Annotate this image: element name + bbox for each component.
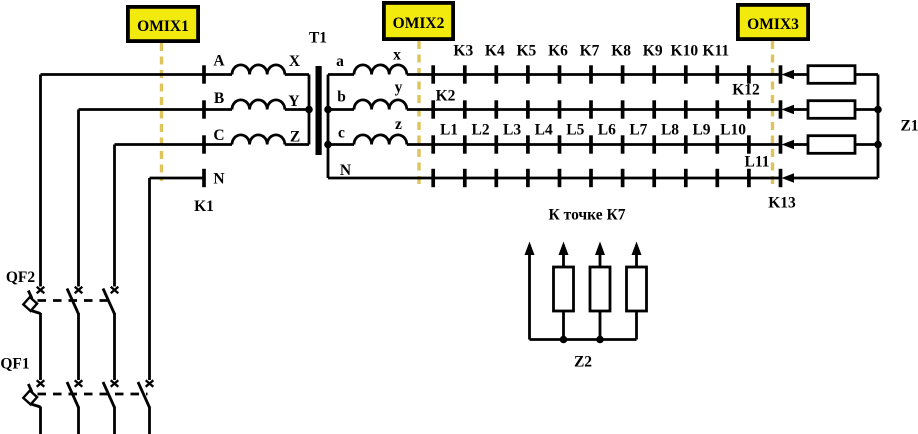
breaker QF1 pole 4 lower wire <box>148 407 151 434</box>
breaker QF2 pole 1 blade <box>28 291 32 299</box>
wire Z2 branch 2 lower <box>562 311 565 340</box>
svg-text:OMIX1: OMIX1 <box>137 18 189 35</box>
svg-text:N: N <box>213 171 224 188</box>
wire Z2 branch 3 upper <box>599 252 602 267</box>
breaker QF1 pole 3 blade <box>103 382 115 408</box>
wire phase C vertical drop <box>113 145 116 287</box>
junction node Z2 branch 3 <box>596 336 604 344</box>
arrow up, Z2 branch 3 <box>595 242 605 256</box>
labels X Y Z <box>288 53 301 146</box>
labels x y z <box>393 47 403 134</box>
dashed probe line of OMIX1 <box>160 43 163 181</box>
resistor of Z2, branch 3 <box>590 267 610 311</box>
svg-text:Z2: Z2 <box>574 354 592 371</box>
wire a stub <box>328 73 354 76</box>
breaker QF2 pole 1 blade to lower wire <box>31 311 41 314</box>
wire resistor row 2 to bus <box>855 108 878 111</box>
svg-text:b: b <box>337 89 346 106</box>
breaker QF2 mechanical linkage (dashed) <box>38 299 113 302</box>
wire b stub <box>328 108 354 111</box>
svg-text:L8: L8 <box>661 122 679 139</box>
junction node at Y <box>305 106 313 114</box>
junction node at b <box>324 106 332 114</box>
svg-text:L11: L11 <box>745 154 770 171</box>
arrow up, Z2 branch 1 <box>525 242 535 256</box>
measurement device box OMIX1 <box>128 7 198 41</box>
wire arrow to resistor row 1 <box>792 73 808 76</box>
wire arrow to resistor row 3 <box>792 143 808 146</box>
junction node bus row 3 <box>874 141 882 149</box>
breaker QF2 actuator square <box>23 297 37 311</box>
arrow into row N (K13 row) from Z1 side <box>782 173 795 183</box>
svg-text:Z1: Z1 <box>900 118 918 135</box>
dashed probe line of OMIX3 <box>771 41 774 188</box>
terminal tick on row C at K1 column <box>202 135 206 153</box>
svg-text:z: z <box>395 116 402 133</box>
junction node bus row 2 <box>874 106 882 114</box>
wire resistor row 1 to bus <box>855 73 878 76</box>
breaker QF2 pole 1 fixed contact x-mark <box>37 287 45 294</box>
svg-text:K9: K9 <box>643 43 663 60</box>
svg-text:K13: K13 <box>768 195 796 212</box>
wire phase B horizontal <box>79 108 233 111</box>
breaker QF2 pole 3 lower wire <box>113 313 116 380</box>
wire row a (K row) horizontal run <box>407 73 781 76</box>
wire Z2 branch 3 lower <box>599 311 602 340</box>
tap ticks on row a (K row) <box>433 65 780 83</box>
svg-text:L9: L9 <box>692 122 710 139</box>
svg-text:K5: K5 <box>516 43 536 60</box>
winding A-X (primary) <box>232 65 285 75</box>
wire Z2 branch 4 lower <box>635 311 638 340</box>
breaker QF1 pole 2 fixed contact x-mark <box>75 380 83 387</box>
winding C-Z (primary) <box>232 135 285 145</box>
arrow into row c (L row) from Z1 side <box>782 140 795 150</box>
svg-text:y: y <box>395 79 403 96</box>
svg-text:K3: K3 <box>453 43 473 60</box>
arrow into row a (K row) from Z1 side <box>782 70 795 80</box>
wire resistor row 3 to bus <box>855 143 878 146</box>
measurement device box OMIX3 <box>738 5 808 39</box>
junction node at c <box>324 141 332 149</box>
wire Z2 branch 2 upper <box>562 252 565 267</box>
tap ticks on row N (K13 row) <box>433 169 780 187</box>
wire phase C horizontal <box>115 143 233 146</box>
svg-text:Z: Z <box>290 129 300 146</box>
svg-text:L1: L1 <box>440 122 458 139</box>
breaker QF1 pole 1 fixed contact x-mark <box>37 380 45 387</box>
breaker QF1 pole 4 fixed contact x-mark <box>146 380 154 387</box>
svg-text:B: B <box>214 90 224 107</box>
wire neutral N horizontal <box>150 177 206 180</box>
breaker QF1 pole 2 blade <box>67 382 79 408</box>
svg-text:QF1: QF1 <box>0 356 29 373</box>
tap ticks on row c (L row) <box>433 135 780 153</box>
wire phase A vertical drop <box>39 75 42 287</box>
terminal tick on row N at K1 column <box>202 169 206 187</box>
breaker QF1 pole 2 lower wire <box>77 407 80 434</box>
breaker QF1 pole 3 lower wire <box>113 407 116 434</box>
svg-text:OMIX3: OMIX3 <box>747 16 799 33</box>
svg-text:Y: Y <box>288 93 299 110</box>
svg-text:K2: K2 <box>436 88 456 105</box>
breaker QF1 pole 1 lower wire <box>39 407 42 434</box>
svg-text:L3: L3 <box>503 122 521 139</box>
primary star-point vertical wire <box>308 75 311 145</box>
svg-text:L7: L7 <box>629 122 647 139</box>
svg-text:L4: L4 <box>535 122 553 139</box>
wire arrow to resistor row 2 <box>792 108 808 111</box>
wire winding Z to star point <box>285 143 309 146</box>
resistor of Z2, branch 4 <box>627 267 647 311</box>
svg-text:A: A <box>213 53 225 70</box>
svg-text:a: a <box>336 53 344 70</box>
breaker QF1 pole 1 blade to lower wire <box>31 404 41 407</box>
resistor of Z2, branch 2 <box>554 267 574 311</box>
svg-text:x: x <box>393 47 401 64</box>
svg-text:K7: K7 <box>580 43 600 60</box>
svg-text:T1: T1 <box>309 30 327 47</box>
secondary common vertical wire <box>327 75 330 179</box>
svg-text:К точке К7: К точке К7 <box>549 207 626 224</box>
Z1 bus vertical wire <box>877 75 880 179</box>
svg-text:L6: L6 <box>598 122 616 139</box>
breaker QF1 pole 1 blade <box>28 384 32 392</box>
svg-text:OMIX2: OMIX2 <box>393 15 445 32</box>
wire phase A horizontal <box>41 73 233 76</box>
breaker QF1 actuator square <box>23 391 37 405</box>
terminal tick on row B at K1 column <box>202 100 206 118</box>
svg-text:K6: K6 <box>548 43 568 60</box>
Z2 bottom common wire <box>530 338 637 341</box>
breaker QF2 pole 3 fixed contact x-mark <box>111 287 119 294</box>
tap ticks on row b (K2-K12 row) <box>433 100 780 118</box>
breaker QF2 pole 1 lower wire <box>39 313 42 380</box>
svg-text:K10: K10 <box>671 43 699 60</box>
labels a b c <box>336 53 346 142</box>
wire winding Y to star point <box>285 108 309 111</box>
wire Z2 branch 4 upper <box>635 252 638 267</box>
wire row c (L row) horizontal run <box>407 143 781 146</box>
breaker QF2 pole 3 blade <box>103 289 115 315</box>
resistor of Z1, row 1 <box>808 66 855 84</box>
svg-text:X: X <box>289 53 301 70</box>
wire c stub <box>328 143 354 146</box>
arrow up, Z2 branch 4 <box>632 242 642 256</box>
svg-text:L2: L2 <box>472 122 490 139</box>
svg-text:K12: K12 <box>732 82 760 99</box>
wire Z2 branch 1 (neutral, no resistor) <box>528 252 531 340</box>
winding a-x (secondary) <box>354 65 407 75</box>
arrow into row b (K2-K12 row) from Z1 side <box>782 105 795 115</box>
winding B-Y (primary) <box>232 100 285 110</box>
svg-text:C: C <box>213 127 224 144</box>
wire neutral vertical drop <box>148 178 151 380</box>
svg-text:N: N <box>340 162 351 179</box>
wire phase B vertical drop <box>77 110 80 287</box>
wire row N to bus <box>792 177 878 180</box>
node labels L1..L10 <box>440 122 746 139</box>
wire row b (K2-K12 row) horizontal run <box>407 108 781 111</box>
svg-text:K4: K4 <box>485 43 505 60</box>
svg-text:K1: K1 <box>194 198 214 215</box>
dashed probe line of OMIX2 <box>417 41 420 188</box>
junction node Z2 branch 2 <box>560 336 568 344</box>
resistor of Z1, row 3 <box>808 136 855 154</box>
svg-text:L5: L5 <box>566 122 584 139</box>
svg-text:K11: K11 <box>702 43 729 60</box>
wire row N (K13 row) horizontal run <box>328 177 780 180</box>
terminal tick on row A at K1 column <box>202 65 206 83</box>
breaker QF1 pole 3 fixed contact x-mark <box>111 380 119 387</box>
winding c-z (secondary) <box>354 135 407 145</box>
arrow up, Z2 branch 2 <box>559 242 569 256</box>
wire winding X to star point <box>285 73 309 76</box>
svg-text:QF2: QF2 <box>6 269 36 286</box>
svg-text:c: c <box>338 125 345 142</box>
breaker QF2 pole 2 fixed contact x-mark <box>75 287 83 294</box>
svg-text:K8: K8 <box>611 43 631 60</box>
winding b-y (secondary) <box>354 100 407 110</box>
svg-text:L10: L10 <box>720 122 746 139</box>
resistor of Z1, row 2 <box>808 101 855 119</box>
breaker QF2 pole 2 lower wire <box>77 313 80 380</box>
measurement device box OMIX2 <box>384 3 453 39</box>
node labels K3..K11 <box>453 43 729 60</box>
breaker QF1 mechanical linkage (dashed) <box>38 393 148 396</box>
transformer core <box>316 66 322 155</box>
breaker QF1 pole 4 blade <box>138 382 150 408</box>
breaker QF2 pole 2 blade <box>67 289 79 315</box>
